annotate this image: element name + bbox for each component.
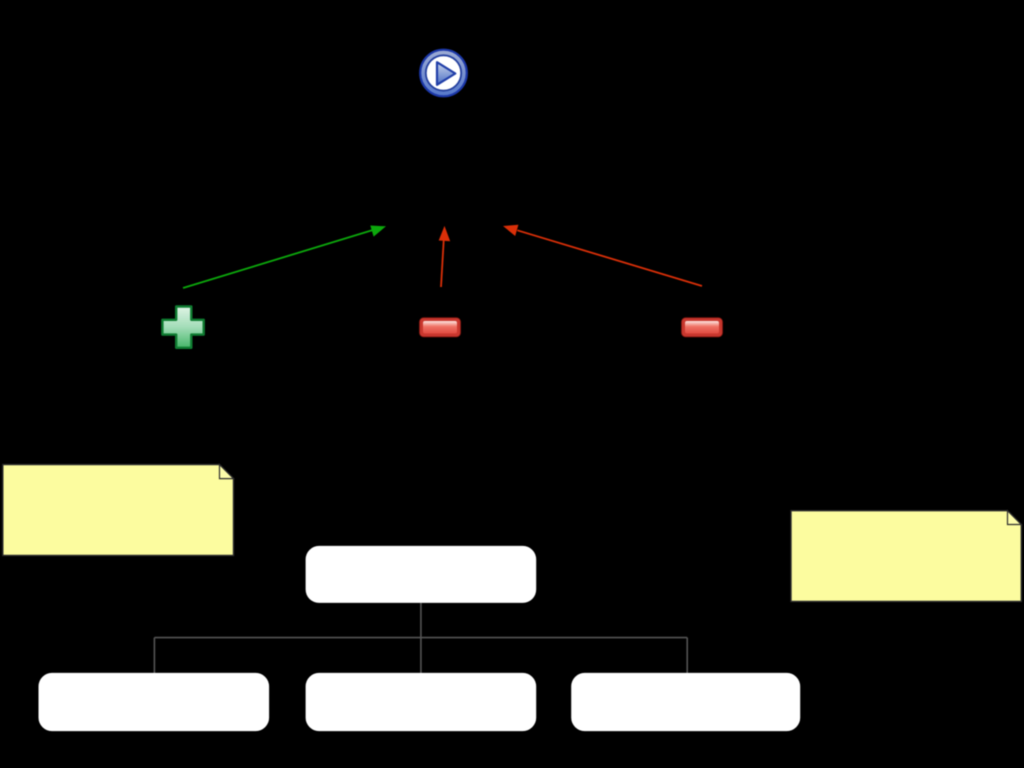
play icon (420, 50, 467, 97)
node box bottom-middle (306, 673, 537, 731)
red arrow vertical (439, 226, 451, 287)
connector left drop (153, 638, 155, 674)
sticky note left (3, 465, 234, 556)
node box top (306, 546, 537, 603)
connector right drop (686, 638, 688, 674)
node box bottom-right (571, 673, 800, 731)
red arrow diagonal (503, 225, 702, 286)
green plus icon (162, 307, 203, 348)
sticky note right (791, 511, 1021, 602)
connector horizontal (154, 637, 687, 639)
red minus icon 1 (420, 318, 461, 337)
connector trunk vertical (420, 603, 422, 673)
node box bottom-left (39, 673, 270, 731)
green arrow (183, 226, 386, 289)
red minus icon 2 (682, 318, 723, 337)
